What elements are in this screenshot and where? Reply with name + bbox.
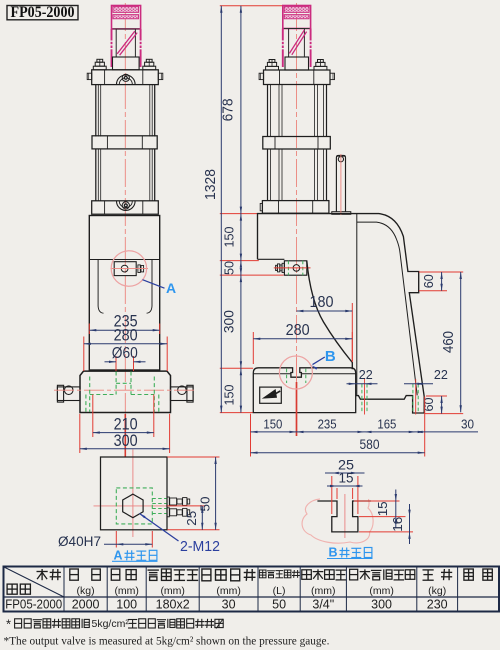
front body column bbox=[89, 216, 159, 371]
side flange side stud right bbox=[330, 73, 335, 79]
side flange side stud left bbox=[259, 73, 264, 79]
front bottom flange bbox=[92, 201, 159, 214]
table column lines bbox=[63, 567, 65, 612]
side base block with B slot bbox=[253, 368, 355, 413]
svg-text:FP05-2000: FP05-2000 bbox=[11, 4, 75, 21]
svg-text:22: 22 bbox=[359, 368, 373, 382]
svg-text:150: 150 bbox=[221, 385, 236, 406]
svg-text:30: 30 bbox=[461, 416, 474, 431]
svg-text:22: 22 bbox=[434, 368, 448, 382]
svg-text:2000: 2000 bbox=[72, 598, 100, 612]
svg-text:280: 280 bbox=[114, 327, 138, 345]
svg-text:150: 150 bbox=[221, 227, 236, 248]
front flange side stud left bbox=[87, 73, 92, 79]
svg-text:Ø60: Ø60 bbox=[112, 345, 138, 362]
front flange bolt left bbox=[93, 66, 106, 70]
svg-text:A: A bbox=[113, 549, 122, 563]
svg-text:25: 25 bbox=[184, 511, 199, 526]
svg-text:(kg): (kg) bbox=[77, 585, 95, 597]
throat curve bbox=[307, 261, 353, 370]
dim 22 left bbox=[347, 383, 378, 385]
dim 25 detail B bbox=[331, 476, 333, 514]
dim 180 bbox=[351, 303, 353, 362]
svg-text:3/4": 3/4" bbox=[312, 598, 334, 612]
dim 15 right detail B bbox=[395, 490, 397, 529]
front body guide line bbox=[89, 259, 159, 261]
detail B T-slot section bbox=[317, 501, 371, 532]
front top port dome bbox=[117, 75, 136, 84]
svg-text:1328: 1328 bbox=[202, 169, 219, 200]
dim 280 bbox=[83, 337, 85, 372]
label 2-M12 leader bbox=[140, 514, 179, 542]
svg-text:2-M12: 2-M12 bbox=[180, 539, 220, 555]
svg-text:(mm): (mm) bbox=[369, 585, 394, 597]
front cap hatched band 1 bbox=[113, 7, 139, 13]
svg-text:50: 50 bbox=[197, 497, 212, 512]
side mid flange band bbox=[263, 137, 331, 150]
detail B right ext lines bbox=[354, 500, 400, 502]
handle rod bbox=[336, 156, 345, 212]
C-frame outline bbox=[258, 214, 425, 413]
svg-text:(mm): (mm) bbox=[311, 585, 336, 597]
dim 580 bbox=[251, 452, 425, 454]
side top flange bbox=[264, 70, 331, 85]
header stroke adjust bbox=[202, 569, 211, 581]
svg-text:15: 15 bbox=[375, 501, 390, 516]
svg-text:460: 460 bbox=[441, 331, 457, 353]
front top flange bbox=[92, 70, 159, 85]
dim 60 foot bbox=[426, 395, 447, 397]
table diagonal cell bbox=[4, 567, 64, 597]
detail A block bbox=[101, 457, 168, 530]
side port bolt bbox=[276, 265, 278, 270]
svg-text:300: 300 bbox=[222, 310, 237, 333]
svg-text:165: 165 bbox=[377, 416, 396, 431]
bottom chain extension lines bbox=[250, 414, 252, 457]
svg-text:100: 100 bbox=[116, 598, 137, 612]
pressing direction box bbox=[260, 387, 282, 403]
arm underside bbox=[258, 258, 285, 260]
front rod diagonal highlight bbox=[117, 31, 135, 54]
side piston rod bbox=[289, 29, 305, 58]
side view center line bbox=[296, 3, 298, 410]
detail B wavy break outline bbox=[302, 499, 373, 543]
front piston rod bbox=[116, 29, 135, 57]
handle rod collar bbox=[332, 212, 351, 215]
dim 678 chain line bbox=[240, 6, 242, 413]
B slot hidden lines bbox=[286, 369, 288, 383]
front rod mount block bbox=[113, 57, 140, 70]
detail A hidden square bbox=[116, 488, 152, 524]
trunnion center line bbox=[54, 389, 197, 391]
side bottom flange bbox=[262, 201, 329, 214]
svg-text:300: 300 bbox=[371, 598, 392, 612]
header output bbox=[70, 569, 79, 580]
side cap hatched band 1 bbox=[284, 7, 309, 13]
svg-text:5kg/cm²: 5kg/cm² bbox=[92, 618, 130, 630]
svg-text:150: 150 bbox=[263, 416, 282, 431]
svg-text:(kg): (kg) bbox=[428, 585, 446, 597]
header remark bbox=[464, 569, 473, 580]
svg-text:*The output valve is measured: *The output valve is measured at 5kg/cm²… bbox=[4, 635, 330, 647]
dim 22 right bbox=[404, 383, 433, 385]
svg-text:210: 210 bbox=[114, 415, 138, 433]
header air consumption bbox=[259, 570, 266, 578]
svg-text:50: 50 bbox=[272, 598, 286, 612]
dim 16 detail B bbox=[409, 504, 411, 544]
svg-text:FP05-2000: FP05-2000 bbox=[5, 596, 62, 611]
title box FP05-2000 bbox=[7, 6, 78, 20]
svg-text:(L): (L) bbox=[273, 585, 286, 597]
side cap hatched band 2 bbox=[284, 15, 309, 19]
dim 210 bbox=[92, 395, 94, 438]
dim 235 bbox=[88, 324, 90, 335]
port A fitting bbox=[138, 265, 140, 273]
svg-text:235: 235 bbox=[318, 416, 337, 431]
front bottom port dome bbox=[117, 201, 136, 210]
leader A bbox=[143, 280, 165, 289]
dim 25 detail A bbox=[201, 506, 203, 530]
header pipe size bbox=[301, 570, 312, 580]
front cylinder tube walls lower bbox=[95, 149, 97, 201]
svg-text:B: B bbox=[325, 348, 336, 365]
detail A ext lines right bbox=[167, 456, 219, 458]
svg-text:A: A bbox=[166, 280, 176, 296]
detail A thread hidden lines bbox=[152, 498, 167, 500]
svg-text:(mm): (mm) bbox=[160, 585, 185, 597]
front flange bolt right bbox=[143, 66, 156, 70]
header bore bbox=[148, 570, 159, 580]
side base bolster line bbox=[254, 373, 291, 375]
table header divider bbox=[4, 596, 500, 598]
header weight bbox=[423, 570, 434, 580]
svg-text:(mm): (mm) bbox=[114, 585, 139, 597]
svg-text:60: 60 bbox=[422, 274, 436, 288]
dim 15 top detail B bbox=[336, 488, 338, 499]
front view center line bbox=[124, 3, 126, 414]
header max work height bbox=[350, 569, 358, 580]
foot bolt hidden lines left bbox=[361, 384, 363, 412]
dim 50 detail A bbox=[215, 457, 217, 530]
trunnion lug right bbox=[171, 387, 194, 401]
front flange side stud right bbox=[158, 73, 163, 79]
side flange bolt left bbox=[266, 66, 279, 70]
dim 1328 bbox=[220, 6, 222, 413]
side bottom flange stub bbox=[260, 204, 262, 211]
handle center line bbox=[340, 154, 342, 215]
front mid flange band bbox=[92, 136, 157, 149]
front cap left wall bbox=[111, 29, 113, 41]
detail B center line bbox=[344, 494, 346, 538]
front ram cavity right bbox=[147, 260, 152, 314]
header stroke bbox=[111, 569, 120, 580]
foot bolt hidden lines right bbox=[412, 384, 414, 412]
side port center line bbox=[274, 267, 311, 269]
front ram cavity left bbox=[98, 260, 103, 314]
dim 300 bbox=[79, 414, 81, 453]
front cap right wall bbox=[140, 29, 142, 41]
detail circle B bbox=[279, 356, 312, 389]
svg-text:B: B bbox=[328, 546, 337, 560]
dim phi60 bbox=[115, 356, 117, 371]
svg-text:15: 15 bbox=[339, 470, 354, 485]
dim phi40H7 bbox=[115, 531, 117, 548]
side cap right wall bbox=[310, 29, 312, 41]
detail A bolt upper bbox=[167, 497, 169, 506]
port block A bbox=[114, 262, 136, 276]
svg-text:30: 30 bbox=[222, 598, 236, 612]
detail A hexagon bbox=[123, 494, 143, 518]
frame inner leg edge bbox=[356, 214, 358, 396]
side rod diagonal highlight bbox=[289, 30, 304, 53]
detail A bolt lower bbox=[167, 508, 169, 517]
front cylinder tube walls upper bbox=[95, 85, 97, 137]
dim 60 tab bbox=[419, 271, 463, 273]
front base block bbox=[80, 371, 171, 412]
side cap outline bbox=[283, 6, 311, 29]
svg-text:Ø40H7: Ø40H7 bbox=[58, 534, 101, 549]
slot center line bbox=[296, 358, 298, 381]
detail circle A bbox=[111, 251, 146, 286]
header spec / model bbox=[37, 569, 48, 580]
detail A center lines bbox=[132, 450, 134, 538]
front cap hatched band 2 bbox=[113, 15, 139, 19]
svg-text:50: 50 bbox=[221, 261, 236, 275]
svg-text:678: 678 bbox=[221, 98, 237, 121]
side flange bolt right bbox=[314, 66, 327, 70]
dim chain 150-235-165-30 bbox=[251, 431, 479, 433]
side rod mount block bbox=[285, 57, 309, 70]
front cap outline bbox=[112, 6, 141, 29]
svg-text:230: 230 bbox=[427, 598, 448, 612]
dim 280 side bbox=[252, 332, 254, 364]
base hidden T-slot bbox=[115, 372, 117, 395]
svg-text:180x2: 180x2 bbox=[156, 598, 190, 612]
side cylinder tie rods lower bbox=[267, 149, 269, 201]
side cap left wall bbox=[282, 29, 284, 41]
svg-text:16: 16 bbox=[390, 517, 405, 532]
port A center line bbox=[111, 268, 149, 270]
svg-text:300: 300 bbox=[114, 432, 138, 450]
svg-text:280: 280 bbox=[286, 322, 310, 339]
frame inner rim edge bbox=[357, 222, 417, 395]
svg-text:*: * bbox=[6, 616, 11, 631]
svg-text:180: 180 bbox=[310, 294, 334, 311]
svg-text:580: 580 bbox=[360, 437, 380, 452]
slot center heavy bbox=[296, 382, 298, 436]
trunnion lug left bbox=[57, 387, 80, 401]
pressing direction arrow bbox=[262, 389, 277, 399]
front center heavy red bbox=[124, 414, 126, 457]
side cylinder tie rods upper bbox=[267, 85, 269, 137]
leader B bbox=[313, 357, 325, 365]
svg-text:(mm): (mm) bbox=[216, 585, 241, 597]
side port box bbox=[284, 261, 306, 275]
dim 460 bbox=[460, 272, 462, 412]
spec table outer border bbox=[4, 567, 500, 612]
extension lines overall height bbox=[220, 5, 283, 7]
